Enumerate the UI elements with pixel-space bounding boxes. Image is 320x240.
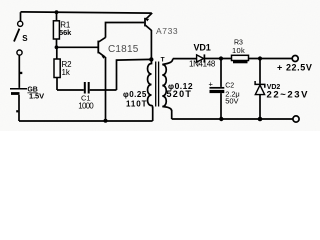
wire secondary top to diode — [173, 58, 197, 60]
resistor R1 56k — [53, 12, 72, 47]
wire battery to bottom rail — [18, 95, 20, 121]
wire switch to battery — [18, 55, 20, 88]
node C2 bottom — [219, 117, 223, 121]
wire left column from rail to switch — [20, 12, 22, 21]
svg-text:VD1: VD1 — [194, 42, 211, 52]
wire C1815 collector up and over to A733 base — [106, 23, 145, 38]
wire A733 collector down to primary — [150, 30, 152, 59]
node base/R1/R2 junction — [55, 45, 59, 49]
output terminal + — [292, 56, 298, 62]
wire primary bottom to rail — [152, 107, 154, 121]
wire secondary bottom to right rail — [171, 110, 173, 119]
svg-text:A733: A733 — [156, 26, 178, 36]
svg-text:50V: 50V — [225, 97, 238, 106]
svg-text:1k: 1k — [62, 68, 71, 77]
wire C1815 emitter down to bottom rail — [105, 57, 107, 121]
svg-text:22~23V: 22~23V — [267, 90, 310, 101]
wire diode to C2 node — [204, 58, 231, 60]
svg-text:520T: 520T — [167, 89, 193, 99]
wire R3 to output — [249, 58, 293, 60]
transistor Q1 C1815 — [98, 37, 138, 58]
svg-text:1.5V: 1.5V — [29, 92, 44, 101]
diode VD1 1N4148 — [189, 42, 216, 68]
wire feedback riser and run to primary top — [117, 59, 151, 90]
wire bottom rail (secondary side) — [172, 118, 293, 120]
node VD2 bottom — [258, 117, 263, 122]
battery GB 1.5V — [10, 87, 44, 101]
transformer core — [155, 62, 157, 107]
scan grain — [0, 0, 320, 131]
output terminal - — [293, 116, 299, 122]
transformer T primary winding 110T — [148, 59, 153, 108]
svg-text:T: T — [161, 56, 165, 63]
wire base wire to C1815 — [57, 46, 98, 48]
svg-text:1N4148: 1N4148 — [189, 60, 216, 69]
transformer T secondary winding 520T — [162, 59, 173, 111]
wire C1 to feedback riser — [90, 89, 117, 91]
svg-text:110T: 110T — [126, 99, 147, 108]
zener diode VD2 22~23V — [255, 59, 309, 120]
node C2 top — [219, 56, 223, 60]
capacitor C2 2.2u 50V — [209, 59, 240, 120]
wire top rail — [21, 12, 152, 13]
svg-text:56k: 56k — [59, 28, 72, 37]
svg-text:C1815: C1815 — [108, 44, 139, 55]
resistor R3 10k — [232, 39, 249, 63]
svg-text:+ 22.5V: + 22.5V — [277, 63, 312, 73]
wire R2 bottom to C1 — [57, 89, 84, 91]
node VD2 top — [258, 56, 262, 60]
transistor Q2 A733 — [145, 13, 178, 36]
wire top rail corner to A733 emitter — [151, 12, 153, 15]
resistor R2 1k — [54, 47, 72, 90]
polarity tick + — [20, 72, 22, 74]
node top rail / R1 — [55, 10, 59, 14]
wire bottom rail (primary side) — [19, 120, 153, 122]
node A733 collector / primary / feedback — [149, 57, 153, 61]
svg-text:φ0.25: φ0.25 — [123, 90, 147, 99]
switch S — [14, 21, 28, 55]
capacitor C1 1000 — [78, 82, 94, 110]
polarity tick - — [16, 110, 18, 112]
svg-text:10k: 10k — [232, 46, 245, 55]
node emitter / bottom rail — [104, 119, 108, 123]
svg-text:S: S — [22, 34, 28, 43]
svg-text:1000: 1000 — [78, 101, 94, 110]
